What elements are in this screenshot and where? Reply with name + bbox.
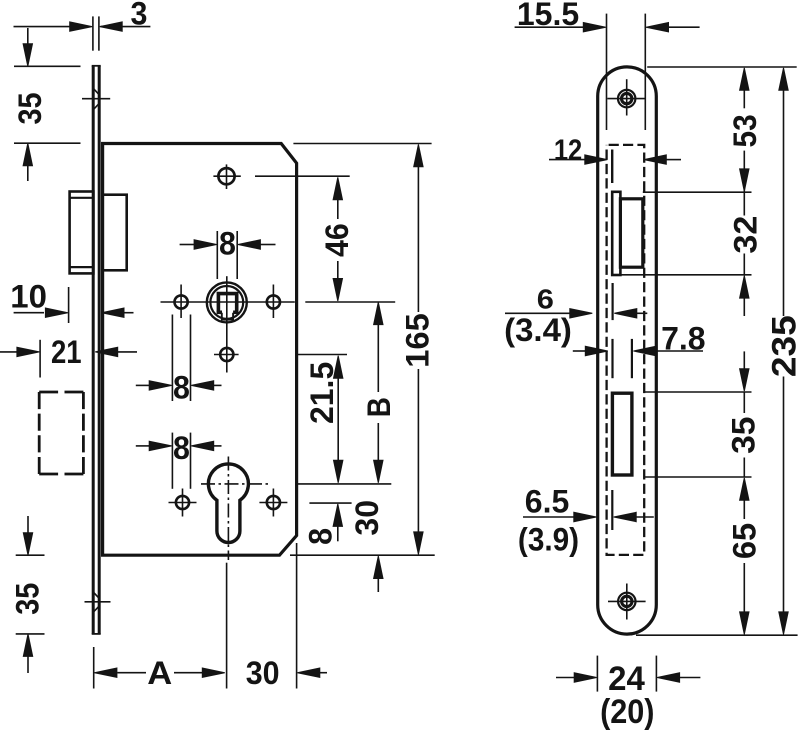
extension line below-hole right bbox=[298, 354, 347, 356]
right hole beside spindle bbox=[267, 295, 280, 308]
svg-text:8: 8 bbox=[303, 528, 339, 545]
svg-text:8: 8 bbox=[173, 430, 190, 466]
top screw hole inner bbox=[622, 93, 632, 103]
svg-text:21: 21 bbox=[51, 335, 82, 370]
dimension 8 rotated (small, lower right of case) bbox=[337, 526, 339, 542]
svg-text:35: 35 bbox=[12, 92, 48, 124]
latch bolt body inside case bbox=[103, 195, 127, 271]
svg-text:(3.4): (3.4) bbox=[504, 313, 572, 348]
spindle follower outer circle bbox=[207, 282, 247, 322]
dimension 32 line bbox=[743, 192, 745, 316]
svg-text:35: 35 bbox=[10, 583, 46, 615]
bottom screw hole crosshair bbox=[608, 584, 646, 620]
latch bolt head (protruding left) bbox=[70, 192, 94, 274]
dimension 35 right line bbox=[743, 351, 745, 477]
cylinder right hole bbox=[267, 496, 280, 509]
svg-text:8: 8 bbox=[173, 370, 190, 406]
faceplate top cap bbox=[92, 65, 101, 67]
latch opening upper left edge line bbox=[611, 150, 613, 184]
svg-text:B: B bbox=[362, 397, 397, 417]
dimension 235 line bbox=[783, 89, 785, 613]
striking plate outline bbox=[598, 67, 657, 634]
deadbolt cutout bbox=[612, 393, 632, 475]
left hole vertical tick bbox=[180, 285, 182, 319]
dimension 8 middle pair 2 bbox=[136, 433, 222, 489]
dimension 3 (top) bbox=[14, 16, 151, 50]
dimension 21.5 line bbox=[337, 378, 339, 461]
cylinder centerline horizontal bbox=[201, 483, 268, 485]
svg-text:8: 8 bbox=[219, 226, 236, 262]
dimension 30 rotated outside arrow bbox=[377, 578, 379, 592]
bottom screw hole inner bbox=[622, 596, 632, 606]
extension line latch top bbox=[643, 191, 752, 193]
dimension 7.8 bbox=[573, 350, 703, 352]
top hole crosshair bbox=[213, 164, 240, 189]
dimension 46 line bbox=[337, 200, 339, 280]
plate dashed inner rectangle bbox=[607, 145, 645, 555]
latch cutout head bbox=[620, 199, 642, 267]
break mark upper bbox=[82, 89, 110, 109]
svg-text:(3.9): (3.9) bbox=[518, 521, 579, 557]
svg-text:6.5: 6.5 bbox=[525, 483, 569, 519]
faceplate side view (left strip) bbox=[93, 66, 99, 634]
extension line latch bottom bbox=[620, 274, 751, 276]
extension line deadbolt bottom bbox=[644, 476, 752, 478]
dimension 8 spindle (top) bbox=[180, 231, 276, 279]
latch bevel line top bbox=[70, 197, 94, 199]
dimension 65 line bbox=[743, 499, 745, 613]
svg-text:3: 3 bbox=[131, 0, 148, 31]
spindle centerline vertical bbox=[226, 276, 228, 372]
hole below spindle bbox=[220, 348, 233, 361]
svg-text:32: 32 bbox=[728, 216, 764, 254]
svg-text:235: 235 bbox=[765, 315, 801, 377]
spindle centerline horizontal bbox=[161, 301, 295, 303]
dimension 35 bottom-left bbox=[16, 516, 45, 673]
extension line top hole right bbox=[255, 175, 350, 177]
dimension 8 middle pair 1 bbox=[136, 315, 222, 402]
spindle follower inner circle bbox=[210, 286, 243, 319]
latch bevel line bottom bbox=[70, 266, 94, 268]
dimension 12 bbox=[549, 159, 681, 161]
dimension 30 (bottom) bbox=[296, 543, 298, 689]
euro profile cylinder hole bbox=[208, 464, 248, 543]
spindle square bottom tab notch bbox=[222, 313, 233, 320]
dimension 6.5 (3.9) bbox=[523, 516, 654, 518]
svg-text:A: A bbox=[147, 656, 172, 692]
svg-text:(20): (20) bbox=[600, 693, 654, 730]
dimension B line bbox=[377, 323, 379, 460]
short line for 6.5(3.9) bbox=[611, 490, 613, 530]
svg-text:6: 6 bbox=[537, 284, 554, 315]
dimension 6 (3.4) bbox=[505, 312, 647, 314]
spindle square bottom edge stubs bbox=[217, 310, 222, 314]
cylinder left hole crosshair bbox=[169, 489, 197, 517]
top fixing hole bbox=[218, 168, 234, 184]
cylinder right hole crosshair bbox=[259, 489, 287, 517]
svg-text:30: 30 bbox=[349, 500, 385, 536]
dimension 53 line bbox=[743, 89, 745, 192]
extension line plate top right bbox=[647, 66, 797, 68]
right hole vertical tick bbox=[272, 285, 274, 319]
svg-text:165: 165 bbox=[400, 313, 436, 367]
extension line case bottom right bbox=[290, 554, 435, 556]
dimension 24 bbox=[556, 656, 700, 692]
bottom screw hole outer bbox=[618, 593, 635, 610]
top screw hole outer bbox=[618, 90, 635, 107]
break mark lower bbox=[85, 592, 111, 612]
extension line deadbolt top bbox=[644, 391, 752, 393]
cylinder left hole bbox=[176, 496, 189, 509]
extension line cylinder center right bbox=[298, 483, 391, 485]
latch cutout strip bbox=[612, 192, 620, 275]
svg-text:65: 65 bbox=[727, 523, 763, 559]
short line for 6(3.4) bbox=[611, 283, 613, 320]
svg-text:21.5: 21.5 bbox=[304, 362, 340, 424]
faceplate bottom cap bbox=[92, 633, 101, 635]
dimension 10 bbox=[14, 287, 134, 323]
dimension 165 line bbox=[417, 167, 419, 533]
extension line flank hole right bbox=[309, 502, 351, 504]
left hole beside spindle bbox=[175, 295, 188, 308]
cylinder centerline vertical bbox=[227, 457, 229, 561]
dimension 35 top-left bbox=[14, 28, 81, 181]
dimension 15.5 bbox=[515, 14, 700, 130]
svg-text:30: 30 bbox=[246, 655, 280, 691]
top screw hole crosshair bbox=[607, 79, 645, 115]
svg-text:7.8: 7.8 bbox=[661, 321, 705, 357]
dimension A (bottom) bbox=[94, 563, 227, 689]
svg-text:46: 46 bbox=[319, 223, 355, 257]
svg-text:15.5: 15.5 bbox=[517, 0, 579, 32]
short lines for 7.8 bbox=[611, 339, 613, 378]
extension line spindle center right bbox=[305, 301, 395, 303]
svg-text:35: 35 bbox=[725, 417, 761, 454]
extension line case top right bbox=[293, 143, 431, 145]
below hole horizontal tick bbox=[214, 354, 239, 356]
svg-text:10: 10 bbox=[10, 279, 47, 314]
dimension 21 bbox=[0, 340, 137, 378]
spindle square hole bbox=[218, 294, 236, 313]
extension line plate bottom bbox=[636, 634, 798, 636]
svg-text:53: 53 bbox=[727, 114, 763, 147]
deadbolt dashed rectangle bbox=[39, 392, 83, 474]
svg-text:12: 12 bbox=[554, 133, 582, 166]
lock case outline bbox=[103, 144, 297, 556]
